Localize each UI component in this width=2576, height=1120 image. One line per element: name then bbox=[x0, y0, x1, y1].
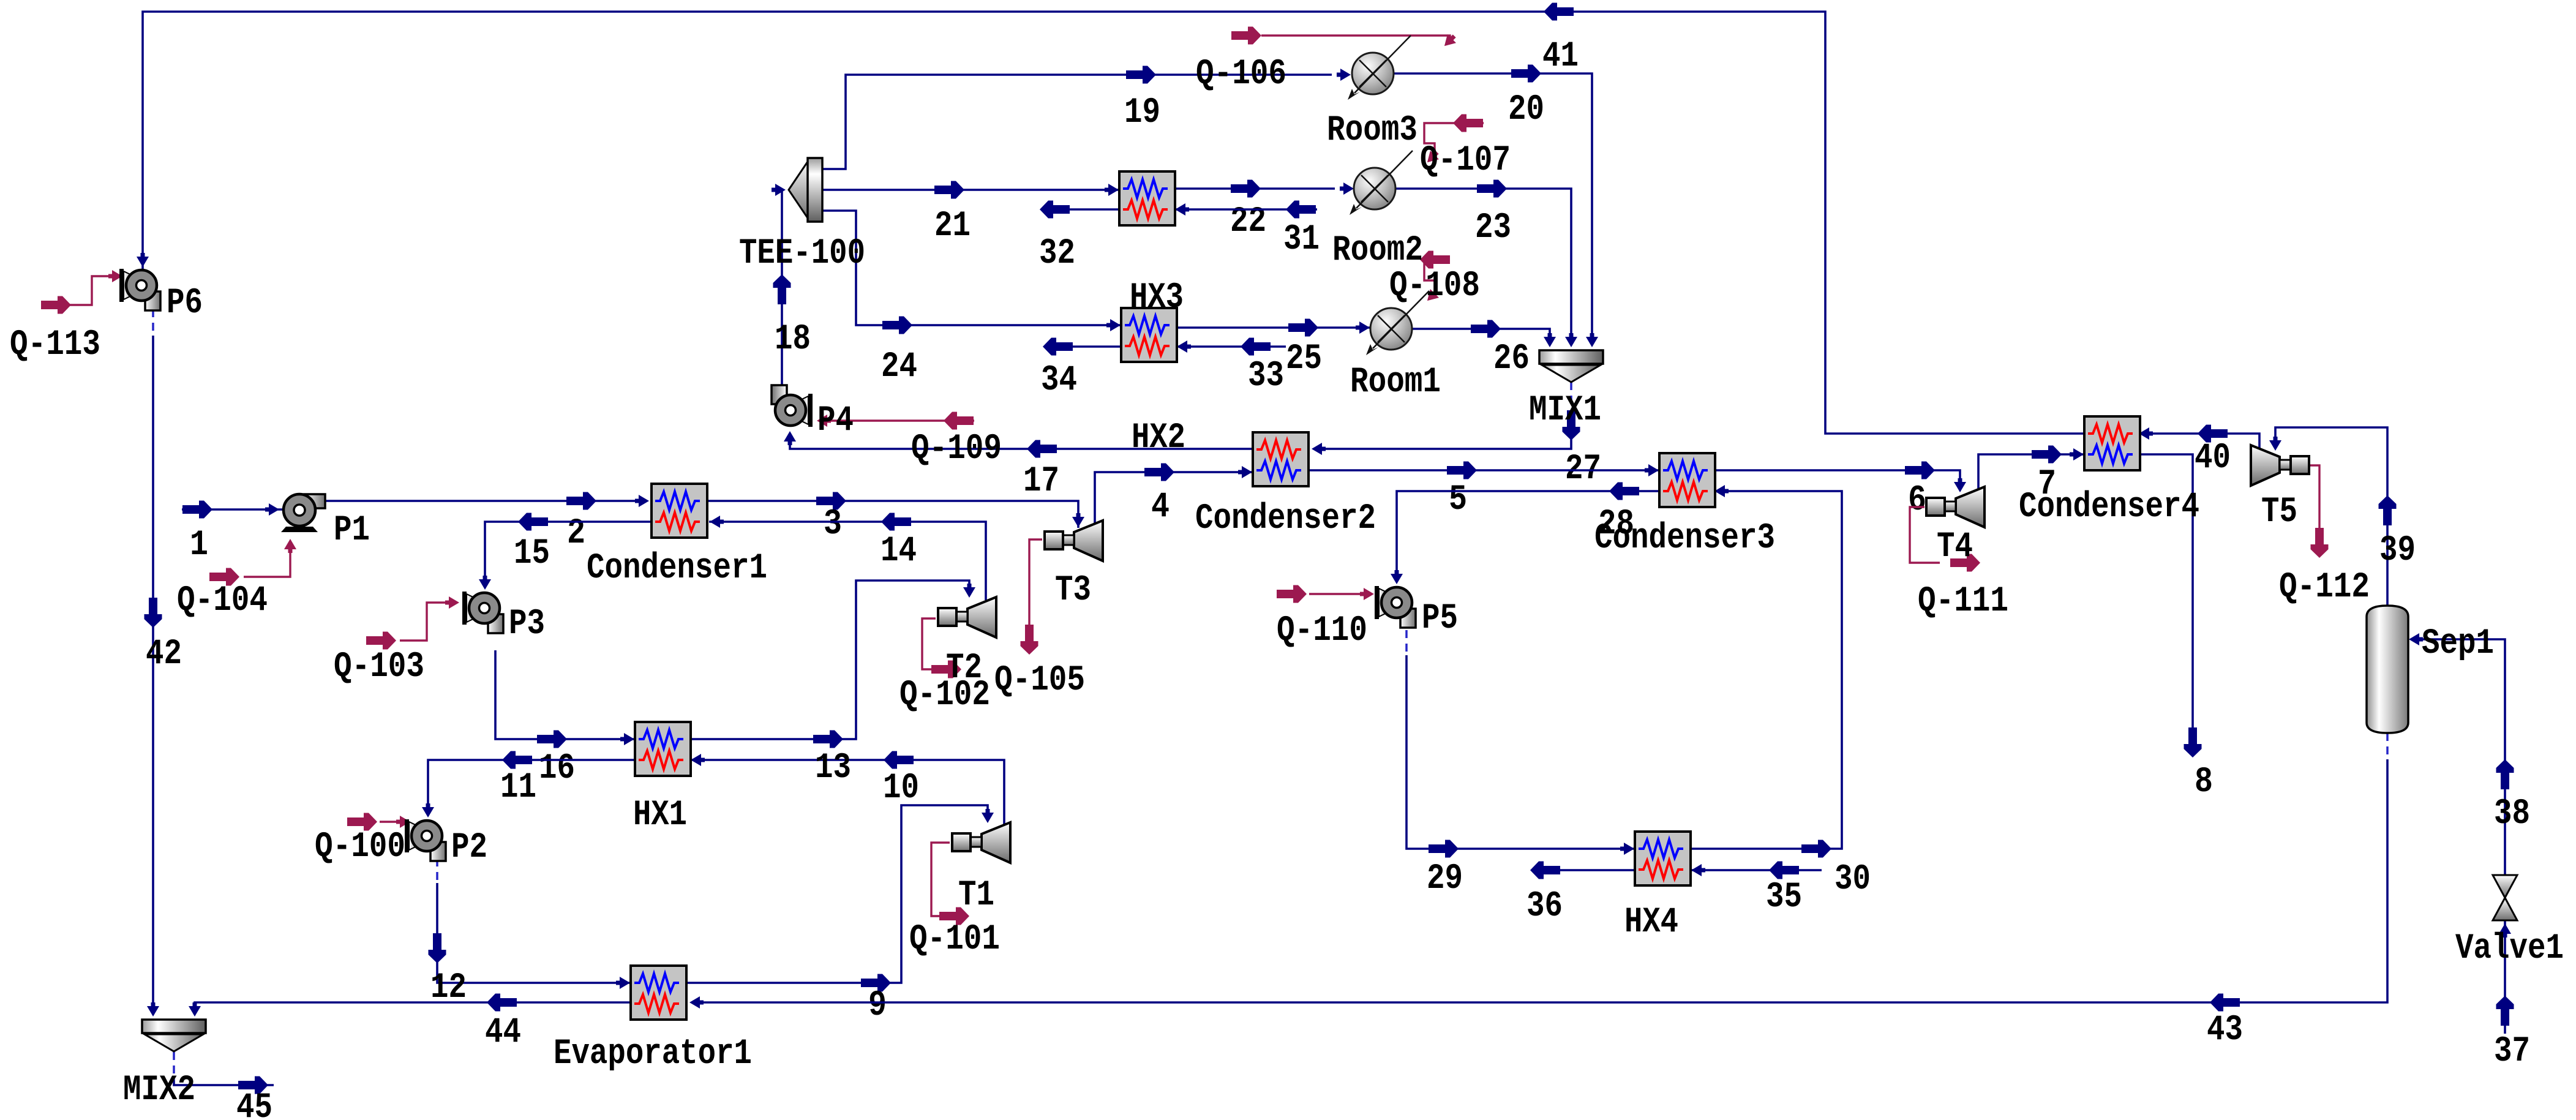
svg-text:34: 34 bbox=[1041, 361, 1077, 400]
wire stream 2 bbox=[325, 492, 649, 554]
svg-text:P2: P2 bbox=[451, 828, 487, 868]
svg-text:16: 16 bbox=[539, 749, 575, 789]
svg-text:40: 40 bbox=[2195, 438, 2231, 478]
wire stream 17 bbox=[784, 431, 1253, 502]
wire stream 43 bbox=[689, 733, 2387, 1050]
heat exchanger HX1 bbox=[633, 722, 691, 835]
wire stream 20 bbox=[1394, 65, 1598, 348]
svg-text:Q-100: Q-100 bbox=[315, 827, 405, 867]
svg-text:26: 26 bbox=[1493, 339, 1530, 379]
wire stream 7 bbox=[1978, 446, 2084, 505]
wire stream 35 bbox=[1688, 862, 1822, 918]
cooler Room1 bbox=[1350, 291, 1441, 402]
svg-text:43: 43 bbox=[2207, 1010, 2243, 1050]
svg-text:1: 1 bbox=[190, 525, 208, 565]
svg-text:25: 25 bbox=[1286, 339, 1322, 379]
energy stream Q-103 bbox=[334, 596, 459, 687]
svg-text:33: 33 bbox=[1248, 356, 1284, 396]
energy stream Q-108 bbox=[1389, 251, 1480, 307]
wire stream 13 bbox=[690, 581, 975, 788]
svg-text:Q-103: Q-103 bbox=[334, 647, 424, 687]
wire stream 6 bbox=[1714, 462, 1966, 521]
energy stream Q-100 bbox=[315, 813, 410, 868]
svg-text:Q-105: Q-105 bbox=[994, 661, 1085, 701]
svg-text:Condenser2: Condenser2 bbox=[1195, 499, 1376, 539]
svg-text:5: 5 bbox=[1449, 480, 1467, 520]
wire stream 40 bbox=[2139, 425, 2259, 479]
svg-text:Q-109: Q-109 bbox=[911, 429, 1002, 469]
wire stream 39 bbox=[2269, 427, 2416, 606]
svg-text:8: 8 bbox=[2195, 762, 2213, 802]
pump P4 bbox=[772, 385, 854, 441]
wire stream 14 bbox=[709, 513, 986, 601]
svg-text:P6: P6 bbox=[167, 284, 203, 323]
cooler Room2 bbox=[1332, 151, 1423, 271]
svg-text:T1: T1 bbox=[958, 876, 994, 915]
cooler Room3 bbox=[1327, 36, 1418, 151]
svg-text:Evaporator1: Evaporator1 bbox=[554, 1034, 752, 1074]
svg-text:Condenser3: Condenser3 bbox=[1594, 519, 1775, 558]
turbine T3 bbox=[1045, 521, 1103, 611]
svg-text:9: 9 bbox=[868, 986, 887, 1026]
turbine T2 bbox=[938, 597, 996, 688]
mixer MIX1 bbox=[1529, 350, 1603, 430]
heat exchanger HX2 bbox=[1121, 308, 1185, 458]
energy stream Q-101 bbox=[909, 843, 1000, 960]
energy stream Q-106 bbox=[1196, 27, 1459, 95]
svg-text:Q-106: Q-106 bbox=[1196, 54, 1286, 94]
svg-text:MIX2: MIX2 bbox=[123, 1070, 195, 1110]
heat exchanger Condenser3 bbox=[1594, 453, 1775, 558]
wire stream 22 bbox=[1174, 180, 1354, 242]
svg-text:T3: T3 bbox=[1055, 571, 1091, 611]
svg-text:Sep1: Sep1 bbox=[2422, 624, 2494, 664]
energy stream Q-110 bbox=[1277, 585, 1374, 652]
svg-text:Q-110: Q-110 bbox=[1277, 611, 1367, 651]
heat exchanger Evaporator1 bbox=[554, 966, 752, 1074]
wire stream 31 bbox=[1174, 201, 1320, 260]
wire stream 16 bbox=[495, 650, 635, 789]
turbine T1 bbox=[952, 822, 1010, 915]
pump P6 bbox=[119, 269, 203, 323]
pump P1 bbox=[281, 494, 370, 551]
svg-text:4: 4 bbox=[1151, 487, 1170, 527]
svg-text:Room1: Room1 bbox=[1350, 363, 1441, 402]
svg-text:37: 37 bbox=[2494, 1032, 2530, 1072]
svg-text:P4: P4 bbox=[817, 401, 854, 441]
svg-text:Q-113: Q-113 bbox=[10, 325, 100, 365]
heat exchanger HX4 bbox=[1624, 832, 1691, 942]
wire stream 9 bbox=[683, 805, 994, 1026]
pump P3 bbox=[462, 592, 545, 644]
wire stream 25 bbox=[1176, 319, 1370, 380]
wire stream 34 bbox=[1041, 338, 1121, 401]
wire stream 21 bbox=[822, 181, 1119, 247]
svg-text:Q-101: Q-101 bbox=[909, 920, 1000, 960]
mixer MIX2 bbox=[123, 1020, 206, 1110]
svg-text:Q-111: Q-111 bbox=[1918, 582, 2008, 622]
svg-text:18: 18 bbox=[775, 320, 811, 359]
svg-text:21: 21 bbox=[934, 206, 971, 246]
svg-text:39: 39 bbox=[2379, 531, 2416, 571]
wire stream 41 bbox=[137, 3, 2084, 434]
heat exchanger Condenser4 bbox=[2019, 416, 2199, 527]
svg-text:19: 19 bbox=[1124, 93, 1160, 133]
wire stream 30 bbox=[1688, 485, 1871, 900]
wire stream 3 bbox=[707, 492, 1084, 545]
svg-text:Valve1: Valve1 bbox=[2455, 929, 2564, 969]
energy stream Q-109 bbox=[817, 412, 1002, 470]
svg-text:P1: P1 bbox=[334, 511, 370, 551]
turbine T5 bbox=[2251, 445, 2309, 532]
svg-text:HX1: HX1 bbox=[633, 795, 687, 835]
svg-text:Q-104: Q-104 bbox=[177, 581, 268, 621]
heat exchanger Condenser1 bbox=[587, 484, 767, 588]
svg-text:Q-108: Q-108 bbox=[1389, 266, 1480, 306]
separator Sep1 bbox=[2367, 606, 2494, 733]
svg-text:HX3: HX3 bbox=[1130, 278, 1184, 318]
svg-text:T2: T2 bbox=[946, 648, 982, 688]
svg-text:MIX1: MIX1 bbox=[1529, 391, 1601, 430]
wire stream 44 bbox=[189, 994, 631, 1053]
wire stream 32 bbox=[1039, 201, 1119, 274]
tee TEE-100 bbox=[739, 158, 865, 274]
svg-text:HX2: HX2 bbox=[1132, 418, 1185, 458]
svg-text:15: 15 bbox=[514, 534, 550, 574]
svg-text:T5: T5 bbox=[2261, 492, 2297, 532]
energy stream Q-113 bbox=[10, 270, 122, 365]
svg-text:42: 42 bbox=[146, 634, 182, 674]
svg-text:Condenser4: Condenser4 bbox=[2019, 487, 2199, 527]
wire stream 23 bbox=[1395, 180, 1577, 348]
wire stream 36 bbox=[1526, 862, 1635, 927]
wire stream 33 bbox=[1176, 338, 1286, 397]
svg-text:36: 36 bbox=[1526, 887, 1563, 926]
wire stream 42 bbox=[145, 309, 182, 1017]
svg-text:2: 2 bbox=[567, 514, 585, 554]
wire stream 45 bbox=[174, 1052, 274, 1120]
wire stream 28 bbox=[1391, 483, 1659, 585]
svg-text:20: 20 bbox=[1508, 90, 1544, 130]
wire stream 19 bbox=[822, 66, 1351, 170]
svg-text:Condenser1: Condenser1 bbox=[587, 549, 767, 588]
svg-text:TEE-100: TEE-100 bbox=[739, 234, 865, 274]
svg-text:29: 29 bbox=[1427, 859, 1463, 899]
svg-text:30: 30 bbox=[1834, 860, 1871, 900]
turbine T4 bbox=[1926, 487, 1985, 567]
wire stream 12 bbox=[429, 859, 631, 1008]
svg-text:14: 14 bbox=[881, 532, 917, 571]
svg-text:24: 24 bbox=[881, 347, 917, 387]
svg-text:P5: P5 bbox=[1422, 599, 1458, 639]
energy stream Q-104 bbox=[177, 539, 296, 621]
wire stream 4 bbox=[1095, 464, 1253, 528]
svg-text:45: 45 bbox=[236, 1088, 272, 1120]
wire stream 24 bbox=[822, 211, 1121, 387]
energy stream Q-111 bbox=[1910, 507, 2008, 622]
valve Valve1 bbox=[2455, 875, 2564, 969]
wire stream 15 bbox=[479, 513, 652, 590]
pump P5 bbox=[1375, 586, 1458, 639]
svg-text:T4: T4 bbox=[1937, 527, 1973, 567]
svg-text:3: 3 bbox=[824, 505, 842, 544]
svg-text:Room2: Room2 bbox=[1332, 231, 1423, 271]
wire stream 26 bbox=[1412, 320, 1556, 380]
energy stream Q-107 bbox=[1420, 115, 1511, 181]
svg-text:17: 17 bbox=[1023, 462, 1059, 502]
svg-text:22: 22 bbox=[1230, 202, 1266, 242]
energy stream Q-112 bbox=[2279, 465, 2370, 607]
wire stream 11 bbox=[422, 751, 635, 818]
wire stream 8 bbox=[2138, 454, 2213, 802]
wire stream 5 bbox=[1309, 462, 1659, 521]
svg-text:10: 10 bbox=[883, 769, 919, 808]
svg-text:23: 23 bbox=[1475, 208, 1511, 248]
svg-text:Q-107: Q-107 bbox=[1420, 141, 1511, 181]
wire stream 29 bbox=[1406, 630, 1635, 899]
svg-text:13: 13 bbox=[815, 748, 851, 788]
wire stream 10 bbox=[690, 751, 1004, 827]
svg-text:41: 41 bbox=[1542, 37, 1579, 77]
wire stream 27 bbox=[1312, 382, 1601, 489]
svg-text:38: 38 bbox=[2494, 794, 2530, 834]
wire stream 38 bbox=[2409, 633, 2530, 875]
pump P2 bbox=[405, 819, 487, 868]
svg-text:44: 44 bbox=[485, 1013, 521, 1053]
svg-text:Q-112: Q-112 bbox=[2279, 568, 2370, 607]
heat exchanger HX3 bbox=[1119, 171, 1184, 318]
svg-text:HX4: HX4 bbox=[1624, 903, 1678, 942]
wire stream 1 bbox=[182, 501, 283, 566]
svg-text:35: 35 bbox=[1766, 878, 1802, 917]
svg-text:32: 32 bbox=[1039, 234, 1075, 274]
heat exchanger Condenser2 bbox=[1195, 432, 1376, 539]
svg-text:P3: P3 bbox=[509, 604, 545, 644]
energy stream Q-102 bbox=[899, 618, 990, 715]
energy stream Q-105 bbox=[994, 539, 1085, 701]
wire stream 37 bbox=[2494, 920, 2530, 1072]
wire stream 18 bbox=[772, 184, 811, 387]
svg-text:11: 11 bbox=[500, 768, 536, 808]
svg-text:Room3: Room3 bbox=[1327, 111, 1418, 151]
svg-text:31: 31 bbox=[1283, 220, 1320, 260]
